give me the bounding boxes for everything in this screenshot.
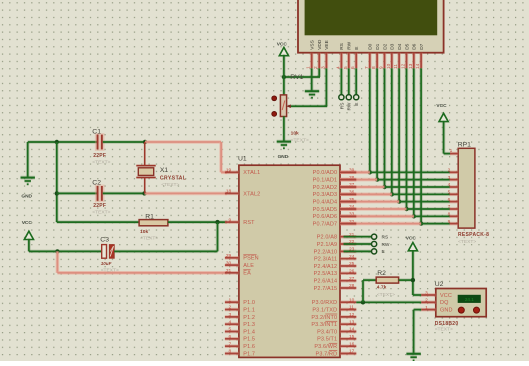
wire VCC to RV1 top <box>282 55 286 95</box>
wire VCC down to U2 <box>411 250 415 295</box>
capacitor C1 <box>95 133 105 151</box>
svg-text:P3.5/T1: P3.5/T1 <box>317 337 337 343</box>
RP1 pin 4 <box>450 185 459 189</box>
svg-text:2: 2 <box>425 298 428 304</box>
RV1 wiper arrow <box>286 104 291 108</box>
U1 pin 21 P2.0/A8 <box>340 235 356 239</box>
svg-text:14: 14 <box>415 63 421 69</box>
U1 pin 15 P3.5/T1 <box>340 337 356 341</box>
potentiometer RV1 <box>280 95 286 117</box>
U1 pin 22 P2.1/A9 <box>340 242 356 246</box>
svg-text:10: 10 <box>349 297 355 303</box>
wire D0 to RP1 pin 2 <box>370 171 450 175</box>
wire VEE to RV1 wiper <box>291 104 328 108</box>
svg-text:P3.4/T0: P3.4/T0 <box>317 329 337 335</box>
wire P0.7 to node D7 (red) <box>340 222 421 226</box>
U1 pin 31 EA <box>225 271 239 275</box>
svg-text:5: 5 <box>229 327 232 333</box>
svg-text:P0.1/AD1: P0.1/AD1 <box>313 178 338 184</box>
svg-text:5: 5 <box>448 190 451 196</box>
U1 pin 12 P3.2/INT0 <box>340 315 356 319</box>
ground (U2) <box>406 352 420 356</box>
wire D5 to RP1 pin 7 <box>407 207 451 211</box>
svg-text:P2.5/A13: P2.5/A13 <box>314 271 338 277</box>
svg-text:1: 1 <box>450 148 453 154</box>
node D4 junction <box>397 199 401 203</box>
wire R2 left lead <box>363 278 376 282</box>
wire rail to C2 <box>57 192 97 196</box>
svg-text:VEE: VEE <box>324 40 330 50</box>
svg-text:<TEXT>: <TEXT> <box>92 210 110 216</box>
wire rail to R1 left <box>57 220 139 224</box>
svg-text:<TEXT>: <TEXT> <box>140 236 158 242</box>
ground (LCD VSS) <box>305 89 319 93</box>
svg-text:2: 2 <box>229 305 232 311</box>
svg-text:CRYSTAL: CRYSTAL <box>160 176 187 182</box>
wire P0.3 to node D3 (red) <box>340 193 392 197</box>
wire P0.2 to node D2 (red) <box>340 185 385 189</box>
node D2 junction <box>382 185 386 189</box>
wire RV1 bottom to ground <box>282 116 286 141</box>
svg-text:E: E <box>354 103 360 106</box>
wire P0.0 to node D0 (red) <box>340 171 370 175</box>
U1 pin 27 P2.6/A14 <box>340 279 356 283</box>
svg-text:24: 24 <box>349 254 355 260</box>
svg-text:3: 3 <box>425 290 428 296</box>
svg-text:VDD: VDD <box>317 39 323 50</box>
wire VEE down <box>325 68 329 106</box>
svg-text:16: 16 <box>349 341 355 347</box>
U1 pin 33 P0.6/AD6 <box>340 215 356 219</box>
svg-text:P2.7/A15: P2.7/A15 <box>314 286 338 292</box>
wire R1 right to RST <box>168 220 227 224</box>
svg-text:P2.6/A14: P2.6/A14 <box>314 279 338 285</box>
wire LCD E to terminal <box>354 68 358 94</box>
wire rail vertical C1-C2-R1 <box>55 142 59 222</box>
svg-text:26: 26 <box>349 269 355 275</box>
wire D3 to RP1 pin 5 <box>392 193 450 197</box>
svg-text:P0.2/AD2: P0.2/AD2 <box>313 185 338 191</box>
svg-text:<TEXT>: <TEXT> <box>161 182 179 188</box>
wire D7 vertical <box>419 68 423 223</box>
wire C1 left rail <box>28 140 97 144</box>
svg-text:VCC: VCC <box>22 220 33 226</box>
node X1 bottom <box>142 191 146 195</box>
svg-text:<TEXT>: <TEXT> <box>435 327 453 333</box>
wire P0.6 to node D6 (red) <box>340 215 414 219</box>
svg-text:EA: EA <box>243 271 251 277</box>
ground (left) <box>21 176 35 180</box>
terminal E (right) <box>372 249 377 254</box>
RP1 pin 8 <box>450 215 459 219</box>
svg-text:XTAL1: XTAL1 <box>243 170 260 176</box>
svg-text:E: E <box>382 249 385 255</box>
svg-text:<TEXT>: <TEXT> <box>92 160 110 166</box>
node D6 junction <box>412 214 416 218</box>
svg-text:VCC: VCC <box>436 103 447 109</box>
svg-text:22PF: 22PF <box>93 153 106 159</box>
wire VCC down <box>27 239 31 252</box>
wire VDD to VCC rail <box>284 75 320 79</box>
U1 pin 16 P3.6/WR <box>340 344 356 348</box>
U1 pin 8 P1.7 <box>225 352 239 356</box>
svg-text:D3: D3 <box>390 43 396 49</box>
svg-text:P3.2/INT0: P3.2/INT0 <box>311 315 337 321</box>
svg-text:28: 28 <box>349 283 355 289</box>
RV1 terminal dot (bottom) <box>272 112 277 117</box>
terminal E (below LCD) <box>354 95 359 100</box>
wire VCC to C3 left <box>29 250 102 254</box>
svg-text:15: 15 <box>349 334 355 340</box>
svg-text:P3.0/RXD: P3.0/RXD <box>312 300 337 306</box>
svg-text:17: 17 <box>349 349 355 355</box>
U1 pin 30 ALE <box>225 263 239 267</box>
wire D2 to RP1 pin 4 <box>385 185 451 189</box>
svg-text:P1.6: P1.6 <box>243 344 255 350</box>
svg-text:P0.6/AD6: P0.6/AD6 <box>313 214 338 220</box>
svg-text:9: 9 <box>229 217 232 223</box>
U2 indicator dot left <box>458 307 464 313</box>
capacitor C3 (polarized) <box>102 245 107 259</box>
svg-text:P2.3/A11: P2.3/A11 <box>314 257 337 263</box>
resistor R2 <box>376 277 398 283</box>
RP1 pin 2 <box>450 171 459 175</box>
svg-text:VCC: VCC <box>277 42 288 48</box>
capacitor C2 <box>95 185 105 203</box>
node X1 top <box>143 140 147 144</box>
svg-text:29: 29 <box>226 253 232 259</box>
wire D7 to RP1 pin 9 <box>421 222 450 226</box>
svg-text:P1.4: P1.4 <box>243 329 255 335</box>
svg-text:P0.5/AD5: P0.5/AD5 <box>313 207 338 213</box>
svg-text:P3.1/TXD: P3.1/TXD <box>312 307 337 313</box>
svg-text:U1: U1 <box>238 156 247 163</box>
wire D4 vertical <box>397 68 401 201</box>
svg-text:8: 8 <box>448 212 451 218</box>
svg-text:VSS: VSS <box>310 40 316 50</box>
svg-text:RW: RW <box>347 102 353 110</box>
svg-text:10uF: 10uF <box>101 261 112 266</box>
svg-text:DS18B20: DS18B20 <box>435 321 459 327</box>
svg-text:RV1: RV1 <box>290 74 303 81</box>
U1 pin 36 P0.3/AD3 <box>340 193 356 197</box>
svg-text:P3.6/WR: P3.6/WR <box>314 344 337 350</box>
wire X1 top to XTAL1 (red) <box>145 140 221 144</box>
svg-text:6: 6 <box>448 197 451 203</box>
wire D4 to RP1 pin 6 <box>399 200 450 204</box>
svg-text:D4: D4 <box>397 43 403 49</box>
svg-text:GND: GND <box>440 307 453 313</box>
wire D6 to RP1 pin 8 <box>414 215 450 219</box>
node VDD/VCC junction <box>282 75 286 79</box>
svg-text:25: 25 <box>349 261 355 267</box>
svg-text:19: 19 <box>226 168 232 174</box>
wire R2 left vertical <box>361 280 365 302</box>
svg-text:C3: C3 <box>100 236 109 243</box>
wire C1 right to X1 node <box>103 140 145 144</box>
svg-text:P2.0/A8: P2.0/A8 <box>317 235 337 241</box>
svg-text:<TEXT>: <TEXT> <box>291 137 309 143</box>
wire VDD down <box>317 68 321 77</box>
U1 pin 4 P1.3 <box>225 322 239 326</box>
svg-text:P1.0: P1.0 <box>243 300 255 306</box>
U1 pin 29 PSEN <box>225 256 239 260</box>
LCD pin stubs 1-14 <box>312 53 421 69</box>
wire EA horizontal (red) <box>57 271 227 275</box>
node D0 junction <box>368 170 372 174</box>
wire to left ground <box>26 142 30 177</box>
node R1/RST/C3 junction <box>215 220 219 224</box>
svg-text:GND: GND <box>278 154 289 160</box>
svg-text:P2.1/A9: P2.1/A9 <box>317 242 337 248</box>
wire P0.1 to node D1 (red) <box>340 178 377 182</box>
svg-text:27: 27 <box>349 276 355 282</box>
svg-text:P1.2: P1.2 <box>243 315 255 321</box>
RV1 terminal dot (top) <box>272 96 277 101</box>
wire D3 vertical <box>390 68 394 194</box>
wire LCD RS to terminal <box>340 68 344 94</box>
U1 pin 7 P1.6 <box>225 344 239 348</box>
svg-text:4: 4 <box>448 182 451 188</box>
svg-text:RS: RS <box>339 43 345 50</box>
terminal RW (right) <box>372 241 377 246</box>
svg-text:D2: D2 <box>382 43 388 49</box>
node D1 junction <box>375 177 379 181</box>
svg-text:10k: 10k <box>140 229 148 235</box>
svg-text:D0: D0 <box>368 43 374 49</box>
svg-text:D5: D5 <box>404 43 410 49</box>
svg-text:1: 1 <box>229 297 232 303</box>
U1 pin 34 P0.5/AD5 <box>340 207 356 211</box>
wire junction down to C3 <box>216 222 220 251</box>
U1 pin 13 P3.3/INT1 <box>340 322 356 326</box>
terminal RS (below LCD) <box>339 95 344 100</box>
svg-text:14: 14 <box>349 327 355 333</box>
wire D6 vertical <box>412 68 416 216</box>
svg-text:8: 8 <box>229 349 232 355</box>
resistor R1 <box>139 220 168 226</box>
U1 pin 19 XTAL1 <box>225 171 239 175</box>
svg-text:P2.2/A10: P2.2/A10 <box>314 249 338 255</box>
wire D0 vertical <box>368 68 372 172</box>
svg-text:P3.3/INT1: P3.3/INT1 <box>311 322 337 328</box>
wire R2 right lead <box>399 278 413 282</box>
svg-text:P2.4/A12: P2.4/A12 <box>314 264 338 270</box>
svg-text:R1: R1 <box>145 213 154 220</box>
U2 indicator dot right <box>474 307 480 313</box>
svg-text:7: 7 <box>448 204 451 210</box>
wire D5 vertical <box>405 68 409 209</box>
wire P2.0 to terminal RS <box>344 235 372 239</box>
wire D2 vertical <box>383 68 387 187</box>
svg-text:12: 12 <box>401 63 407 69</box>
wire C2 right to X1 node <box>103 192 145 196</box>
svg-text:<TEXT>: <TEXT> <box>101 268 119 274</box>
svg-text:1: 1 <box>425 305 428 311</box>
svg-text:RW: RW <box>382 242 390 248</box>
temperature sensor U2 DS18B20 body <box>436 289 486 317</box>
node D3 junction <box>390 192 394 196</box>
svg-text:30: 30 <box>226 260 232 266</box>
wire VSS to ground <box>310 68 314 90</box>
U1 pin 6 P1.5 <box>225 337 239 341</box>
svg-text:RST: RST <box>243 220 255 226</box>
svg-text:6: 6 <box>229 334 232 340</box>
svg-text:VCC: VCC <box>440 293 452 299</box>
svg-text:13: 13 <box>408 63 414 69</box>
svg-text:P3.7/RD: P3.7/RD <box>316 351 338 357</box>
svg-text:31: 31 <box>226 268 232 274</box>
node R2/DQ junction <box>361 300 365 304</box>
wire EA vertical (red) <box>56 251 60 272</box>
crystal X1 <box>144 142 146 166</box>
node VCC/EA junction <box>55 249 59 253</box>
svg-text:P0.4/AD4: P0.4/AD4 <box>313 200 338 206</box>
U1 pin 24 P2.3/A11 <box>340 257 356 261</box>
U1 pin 3 P1.2 <box>225 315 239 319</box>
svg-text:RS: RS <box>339 103 345 110</box>
svg-text:X1: X1 <box>160 167 169 174</box>
U1 pin 10 P3.0/RXD <box>340 300 356 304</box>
wire VCC to U2 VCC pin <box>413 293 421 297</box>
wire P2.1 to terminal RW <box>344 242 372 246</box>
U1 pin 26 P2.5/A13 <box>340 272 356 276</box>
node C2 rail junction <box>55 191 59 195</box>
U1 pin 17 P3.7/RD <box>340 352 356 356</box>
RP1 pin 6 <box>450 200 459 204</box>
svg-text:VCC: VCC <box>406 235 417 241</box>
svg-text:13: 13 <box>349 319 355 325</box>
svg-text:C1: C1 <box>92 129 101 136</box>
svg-text:R2: R2 <box>377 270 386 277</box>
svg-text:10: 10 <box>386 63 392 69</box>
wire P3.0 to U2 DQ <box>356 301 421 305</box>
svg-text:4.7k: 4.7k <box>377 284 387 290</box>
wire D1 vertical <box>375 68 379 179</box>
LCD pin numbers 1-14 <box>306 63 421 69</box>
svg-text:P0.3/AD3: P0.3/AD3 <box>313 192 338 198</box>
U1 pin 5 P1.4 <box>225 330 239 334</box>
svg-text:P1.5: P1.5 <box>243 337 255 343</box>
LCD pin name labels VSS VDD VEE RS RW E D0-D7 <box>310 39 425 50</box>
svg-text:7: 7 <box>229 341 232 347</box>
svg-text:2: 2 <box>448 168 451 174</box>
U2 pin 2 DQ <box>421 301 436 305</box>
U1 pin 18 XTAL2 <box>225 192 239 196</box>
RP1 pin 1 <box>450 152 458 156</box>
U1 pin 35 P0.4/AD4 <box>340 200 356 204</box>
svg-text:D1: D1 <box>375 43 381 49</box>
svg-text:D6: D6 <box>412 43 418 49</box>
svg-text:RESPACK-8: RESPACK-8 <box>458 232 489 238</box>
svg-text:12: 12 <box>349 312 355 318</box>
svg-text:U2: U2 <box>435 281 444 288</box>
microcontroller U1 (8051) body <box>239 165 340 357</box>
U1 pin 14 P3.4/T0 <box>340 330 356 334</box>
U2 pin 3 VCC <box>421 293 436 297</box>
wire P2.2 to terminal E <box>344 250 372 254</box>
U2 pin 1 GND <box>421 308 436 312</box>
svg-text:C2: C2 <box>92 179 101 186</box>
wire U2 GND pin <box>414 308 422 312</box>
wire P0.5 to node D5 (red) <box>340 207 407 211</box>
wire P0.4 to node D4 (red) <box>340 200 399 204</box>
svg-text:18: 18 <box>226 189 232 195</box>
svg-text:11: 11 <box>349 305 354 311</box>
svg-text:E: E <box>354 47 360 50</box>
U1 pin 1 P1.0 <box>225 300 239 304</box>
ground (RV1) <box>277 140 291 144</box>
svg-text:<TEXT>: <TEXT> <box>377 292 395 298</box>
svg-text:P1.7: P1.7 <box>243 351 255 357</box>
svg-text:10k: 10k <box>291 131 299 137</box>
RP1 pin 3 <box>450 178 459 182</box>
U1 pin 38 P0.1/AD1 <box>340 178 356 182</box>
svg-text:DQ: DQ <box>440 300 449 306</box>
svg-text:XTAL2: XTAL2 <box>243 191 260 197</box>
svg-text:RW: RW <box>347 41 353 49</box>
wire LCD RW to terminal <box>347 68 351 94</box>
svg-text:RP1: RP1 <box>458 141 471 148</box>
U1 pin 9 RST <box>225 220 239 224</box>
U1 pin 23 P2.2/A10 <box>340 250 356 254</box>
svg-text:P0.0/AD0: P0.0/AD0 <box>313 170 338 176</box>
U2 display <box>458 295 481 303</box>
wire D1 to RP1 pin 3 <box>377 178 450 182</box>
U1 pin 2 P1.1 <box>225 308 239 312</box>
svg-text:24.1: 24.1 <box>465 297 474 302</box>
svg-text:9: 9 <box>448 219 451 225</box>
U1 pin 28 P2.7/A15 <box>340 286 356 290</box>
svg-text:4: 4 <box>229 319 232 325</box>
svg-text:3: 3 <box>448 175 451 181</box>
U1 pin 32 P0.7/AD7 <box>340 222 356 226</box>
svg-text:3: 3 <box>229 312 232 318</box>
LCD module LCD1 <box>298 0 444 53</box>
svg-text:P1.1: P1.1 <box>243 307 255 313</box>
svg-text:ALE: ALE <box>243 263 254 269</box>
node D7 junction <box>419 221 423 225</box>
wire C3 right to RST junction <box>114 250 217 254</box>
U1 pin 37 P0.2/AD2 <box>340 185 356 189</box>
svg-text:D7: D7 <box>419 43 425 49</box>
U1 pin 39 P0.0/AD0 <box>340 171 356 175</box>
RP1 pin 9 <box>450 222 459 226</box>
terminal RW (below LCD) <box>346 95 351 100</box>
U1 pin 11 P3.1/TXD <box>340 308 356 312</box>
terminal RS (right) <box>372 234 377 239</box>
svg-text:RS: RS <box>382 235 389 241</box>
svg-text:11: 11 <box>393 64 399 69</box>
U1 pin 25 P2.4/A12 <box>340 264 356 268</box>
RP1 pin 7 <box>450 207 459 211</box>
svg-text:22PF: 22PF <box>93 203 106 209</box>
svg-text:<TEXT>: <TEXT> <box>458 239 476 245</box>
svg-text:P1.3: P1.3 <box>243 322 255 328</box>
svg-text:GND: GND <box>21 194 32 200</box>
LCD screen <box>305 0 438 35</box>
resistor pack RP1 body <box>458 148 475 228</box>
node C1 rail junction <box>55 140 59 144</box>
svg-text:P0.7/AD7: P0.7/AD7 <box>313 222 338 228</box>
svg-text:PSEN: PSEN <box>243 256 258 262</box>
node VCC/R2 junction <box>411 278 415 282</box>
wire VCC to RP1 pin 1 <box>442 121 446 154</box>
wire X1 bottom to XTAL2 (red) <box>145 192 228 196</box>
RP1 pin 5 <box>450 193 459 197</box>
node D5 junction <box>404 207 408 211</box>
